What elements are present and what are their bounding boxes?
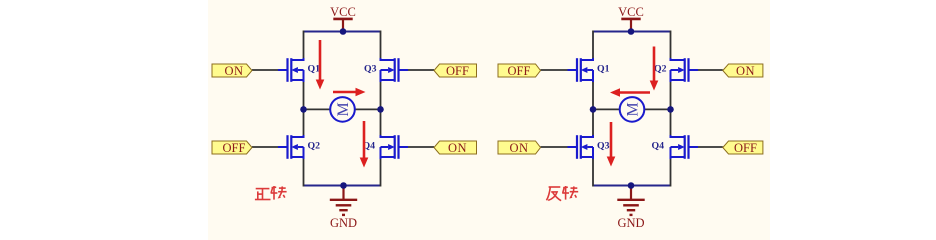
power VCC symbol [333,19,352,32]
wire: motor left lead [593,108,620,110]
wire: left vertical mid [592,82,594,135]
svg-text:M: M [625,102,642,116]
wire: left vertical lower [303,159,305,187]
svg-text:GND: GND [330,216,357,230]
svg-text:OFF: OFF [223,141,246,155]
svg-text:Q1: Q1 [308,63,321,74]
wire: right vertical lower [380,159,382,187]
wire: gate Q2 [698,69,723,71]
wire: left vertical upper [592,31,594,59]
current arrow down through Q1 [316,40,325,90]
wire: top rail [593,31,671,33]
ground symbol [330,186,357,215]
svg-text:ON: ON [224,64,243,78]
port ON (Q4 gate) [434,141,477,155]
svg-text:ON: ON [509,141,528,155]
svg-text:VCC: VCC [618,5,644,19]
svg-text:GND: GND [617,216,644,230]
svg-text:ON: ON [736,64,755,78]
transistor Q3 [381,58,409,82]
wire: gate Q1 [541,69,568,71]
wire: motor right lead [355,108,381,110]
schematic cream background [208,0,770,240]
node GND junction [628,182,635,189]
caption 正转 (forward) [255,186,287,200]
svg-text:OFF: OFF [734,141,757,155]
port OFF (Q3 gate) [434,64,477,78]
current arrow down through Q3 [607,122,616,167]
svg-text:Q2: Q2 [654,63,667,74]
svg-text:M: M [335,102,352,116]
power VCC symbol [621,19,640,32]
wire: right vertical lower [670,159,672,187]
ground symbol [617,186,644,215]
wire: motor left lead [304,108,331,110]
svg-text:Q2: Q2 [308,140,321,151]
node motor right junction [377,106,384,113]
svg-text:Q3: Q3 [597,140,610,151]
wire: bottom rail [304,185,381,187]
port ON (Q2 gate) [723,64,763,78]
svg-text:VCC: VCC [330,5,356,19]
current arrow left through motor [610,88,650,97]
svg-text:Q3: Q3 [364,63,377,74]
wire: gate Q4 [698,146,723,148]
node GND junction [340,182,347,189]
wire: gate Q3 [541,146,568,148]
node VCC junction [628,28,635,35]
motor M1 [330,97,355,122]
svg-text:OFF: OFF [508,64,531,78]
transistor Q3 [568,135,594,159]
wire: gate Q3 [408,69,435,71]
svg-text:Q1: Q1 [597,63,610,74]
port OFF (Q4 gate) [723,141,763,155]
caption 反转 (reverse) [547,186,579,201]
node motor left junction [590,106,597,113]
svg-text:ON: ON [448,141,467,155]
motor M2 [620,97,645,122]
wire: left vertical mid [303,82,305,135]
current arrow right through motor [333,88,366,97]
node VCC junction [340,28,347,35]
svg-text:OFF: OFF [446,64,469,78]
transistor Q2 [278,135,304,159]
node motor left junction [300,106,307,113]
svg-text:Q4: Q4 [651,140,664,151]
port OFF (Q1 gate) [498,64,541,78]
wire: bottom rail [593,185,671,187]
wire: gate Q2 [252,146,279,148]
current arrow down through Q2 [650,47,659,91]
current arrow down through Q4 [360,121,369,168]
transistor Q1 [568,58,594,82]
wire: right vertical mid [670,82,672,135]
transistor Q2 [671,58,699,82]
port OFF (Q2 gate) [212,141,252,155]
node motor right junction [667,106,674,113]
wire: top rail [304,31,381,33]
wire: right vertical mid [380,82,382,135]
transistor Q1 [278,58,304,82]
wire: right vertical upper [380,31,382,59]
wire: motor right lead [645,108,671,110]
port ON (Q3 gate) [498,141,541,155]
wire: gate Q4 [408,146,435,148]
transistor Q4 [381,135,409,159]
transistor Q4 [671,135,699,159]
wire: left vertical upper [303,31,305,59]
wire: left vertical lower [592,159,594,187]
port ON (Q1 gate) [212,64,252,78]
wire: gate Q1 [252,69,279,71]
wire: right vertical upper [670,31,672,59]
